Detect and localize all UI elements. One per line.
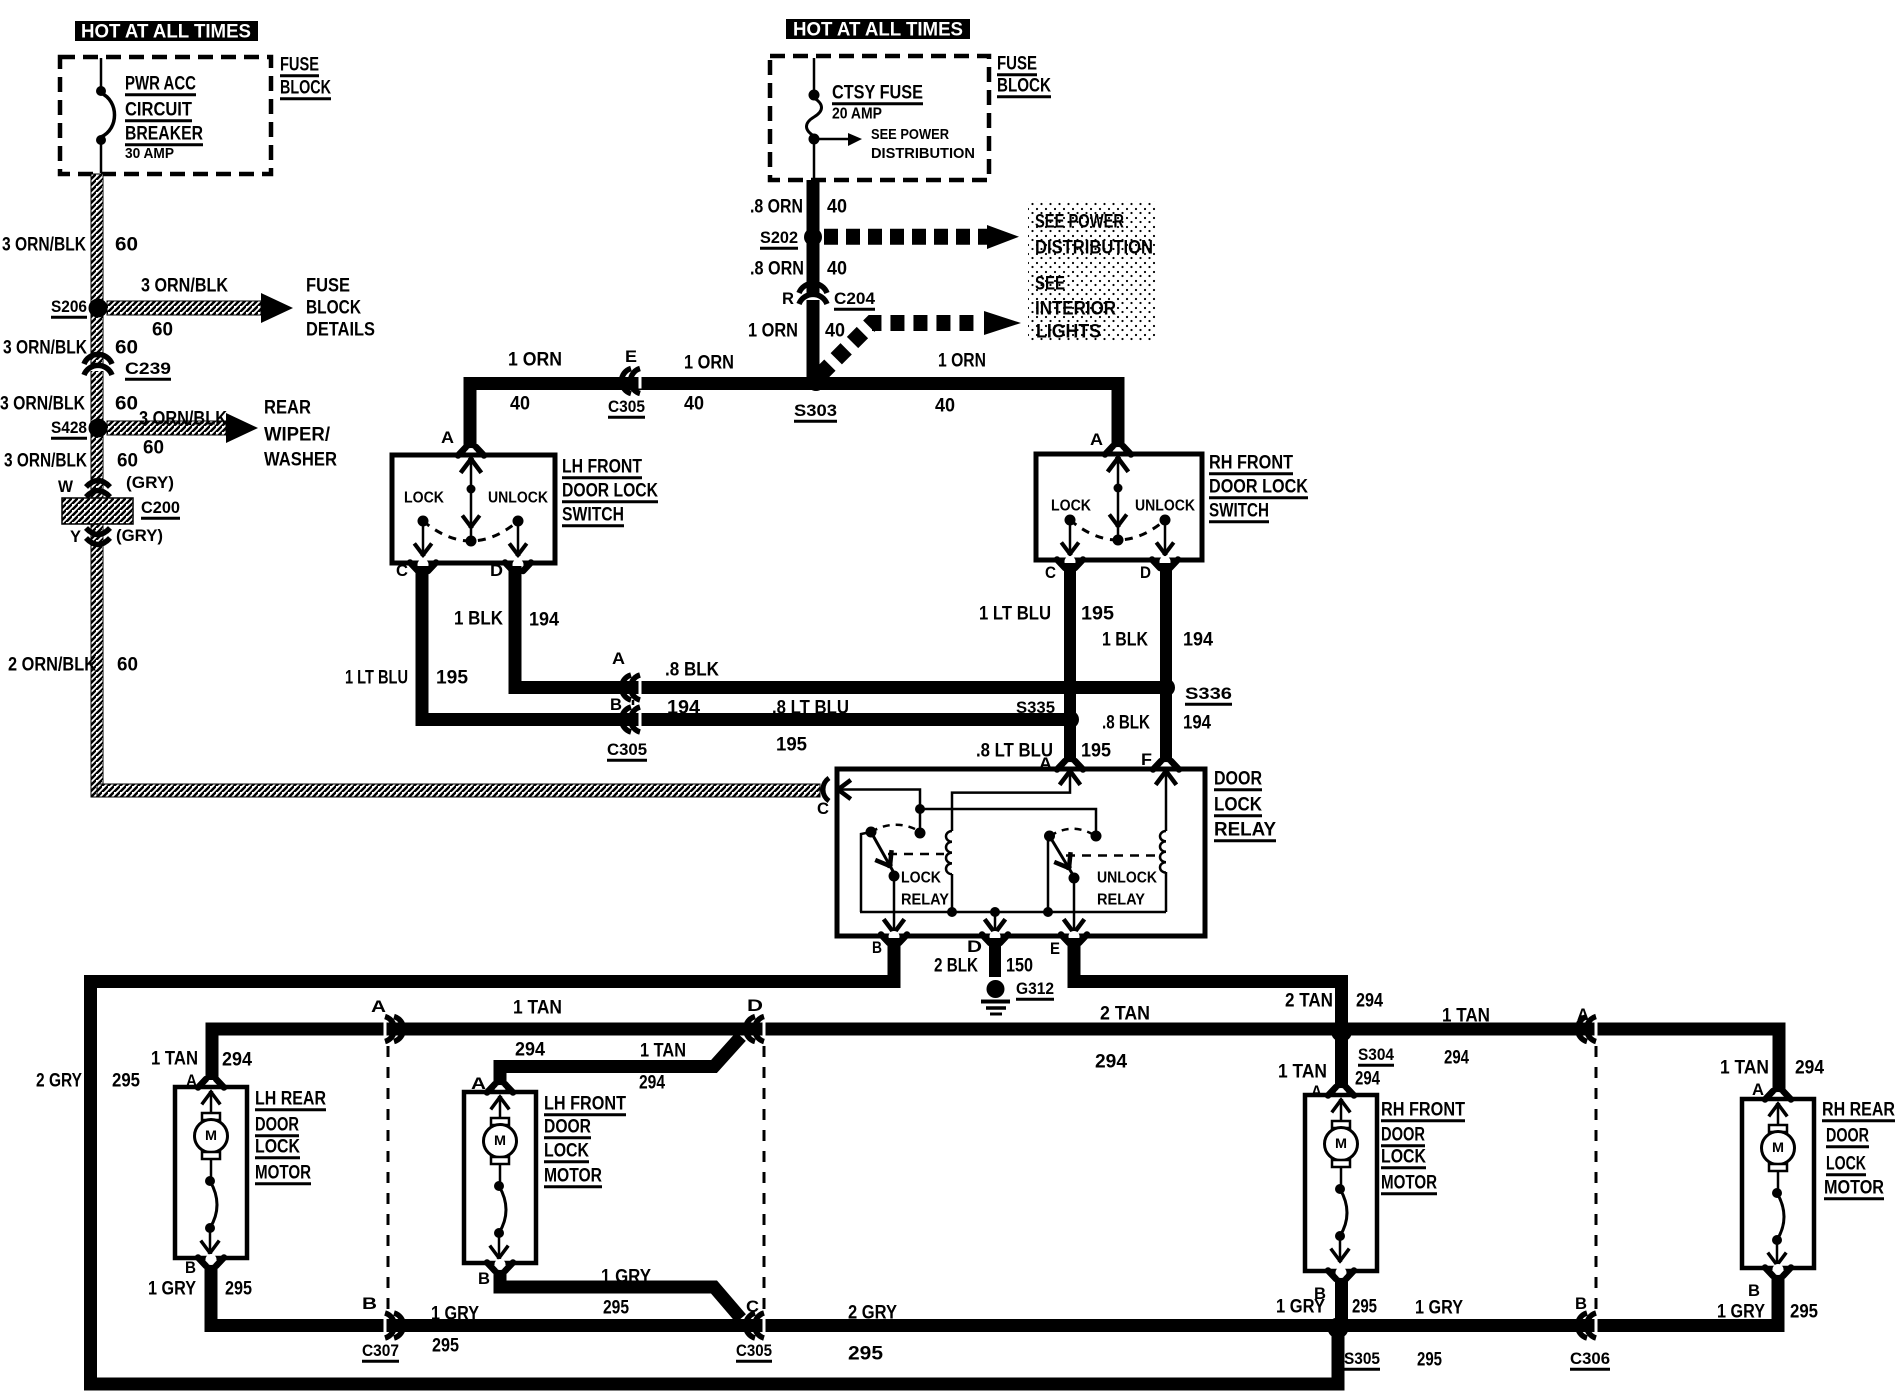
svg-text:M: M <box>494 1132 506 1148</box>
wire RH D to relay F <box>1160 563 1172 764</box>
svg-text:294: 294 <box>639 1073 665 1094</box>
wire RH front motor B down to S305 <box>1335 1271 1348 1326</box>
LH front motor B terminal <box>495 1259 506 1270</box>
svg-text:40: 40 <box>827 259 847 280</box>
RH switch box <box>1036 454 1202 560</box>
svg-text:295: 295 <box>225 1279 252 1300</box>
svg-text:BLOCK: BLOCK <box>280 78 331 99</box>
svg-text:.8 ORN: .8 ORN <box>750 197 803 218</box>
svg-text:(GRY): (GRY) <box>116 526 163 545</box>
svg-text:S202: S202 <box>760 228 798 247</box>
svg-text:E: E <box>1050 939 1060 958</box>
svg-text:Y: Y <box>70 527 82 546</box>
ground G312 <box>987 980 1005 998</box>
svg-text:D: D <box>747 996 763 1015</box>
svg-text:FUSE: FUSE <box>280 55 319 76</box>
svg-text:M: M <box>1335 1135 1347 1151</box>
relay bottom rail <box>860 911 1166 914</box>
svg-text:3 ORN/BLK: 3 ORN/BLK <box>3 338 87 359</box>
svg-text:2 ORN/BLK: 2 ORN/BLK <box>8 655 96 676</box>
CTSY fuse 20 AMP symbol <box>813 58 816 93</box>
svg-text:A: A <box>1311 1082 1322 1101</box>
circuit breaker PWR ACC 30 AMP <box>100 58 103 88</box>
svg-text:DOOR: DOOR <box>1381 1125 1425 1146</box>
svg-text:194: 194 <box>529 610 559 631</box>
svg-text:60: 60 <box>115 338 138 359</box>
svg-text:295: 295 <box>848 1344 883 1365</box>
svg-text:FUSE: FUSE <box>997 54 1037 75</box>
RH front motor A terminal <box>1336 1088 1347 1099</box>
relay D arrow and wire <box>994 912 997 932</box>
RH front motor internals <box>1333 1100 1349 1111</box>
hatched arrow S428 to rear wiper/washer <box>107 421 226 435</box>
svg-text:D: D <box>490 561 503 580</box>
svg-text:295: 295 <box>603 1298 629 1319</box>
svg-text:DOOR: DOOR <box>255 1115 299 1136</box>
RH front motor box <box>1305 1095 1377 1271</box>
LH switch box <box>392 455 555 563</box>
svg-text:S206: S206 <box>51 297 87 316</box>
relay LOCK armature dashed positions <box>871 825 919 832</box>
svg-text:295: 295 <box>1790 1302 1818 1323</box>
svg-text:.8 ORN: .8 ORN <box>750 259 804 280</box>
svg-text:294: 294 <box>515 1040 545 1061</box>
wire 3 ORN/BLK hatched vertical from breaker <box>91 174 103 797</box>
wire LH front motor A branch with diagonal to C305 D <box>500 1037 741 1094</box>
svg-text:1 TAN: 1 TAN <box>151 1049 198 1070</box>
svg-text:A: A <box>186 1071 197 1090</box>
svg-text:DOOR: DOOR <box>1826 1126 1869 1147</box>
fuse block dashed box (middle) <box>770 56 989 180</box>
RH switch A terminal <box>1113 447 1124 458</box>
RH switch LOCK contact <box>1065 515 1076 526</box>
svg-text:60: 60 <box>115 235 138 256</box>
svg-text:DOOR: DOOR <box>544 1117 591 1138</box>
svg-text:SWITCH: SWITCH <box>562 505 624 526</box>
svg-text:1 ORN: 1 ORN <box>684 353 734 374</box>
svg-text:A: A <box>1090 430 1103 449</box>
svg-text:194: 194 <box>667 698 700 719</box>
svg-text:LOCK: LOCK <box>1051 498 1091 515</box>
svg-text:C200: C200 <box>141 498 180 517</box>
RH switch UNLOCK contact <box>1160 515 1171 526</box>
svg-text:295: 295 <box>112 1071 140 1092</box>
svg-text:LOCK: LOCK <box>404 490 444 507</box>
stippled note box SEE POWER DISTRIBUTION / SEE INTERIOR LIGHTS <box>1028 201 1156 341</box>
svg-text:194: 194 <box>1183 630 1213 651</box>
svg-text:40: 40 <box>684 394 704 415</box>
connector C307 terminal A <box>384 1022 387 1037</box>
svg-text:A: A <box>612 649 625 668</box>
svg-text:M: M <box>205 1127 217 1143</box>
svg-text:F: F <box>1141 750 1152 769</box>
svg-text:(GRY): (GRY) <box>126 473 174 492</box>
svg-text:LOCK: LOCK <box>1214 795 1262 816</box>
svg-text:C: C <box>1045 563 1056 582</box>
svg-text:BREAKER: BREAKER <box>125 124 203 145</box>
svg-text:1 TAN: 1 TAN <box>1720 1058 1769 1079</box>
svg-text:WIPER/: WIPER/ <box>264 425 331 446</box>
svg-text:1 GRY: 1 GRY <box>1717 1302 1765 1323</box>
svg-text:1 BLK: 1 BLK <box>454 609 503 630</box>
svg-text:FUSE: FUSE <box>306 276 350 297</box>
relay UNLOCK coil <box>1160 831 1166 873</box>
svg-text:60: 60 <box>117 451 138 472</box>
connector C307 terminal B <box>384 1318 387 1333</box>
relay UNLOCK armature dashed positions <box>1050 829 1094 836</box>
svg-text:294: 294 <box>1795 1058 1824 1079</box>
connector C306 terminal A <box>1595 1022 1598 1037</box>
svg-text:RELAY: RELAY <box>901 892 949 909</box>
svg-text:LOCK: LOCK <box>1381 1147 1426 1168</box>
svg-text:A: A <box>371 997 386 1016</box>
wire motor return chain LH rear B to RH rear B <box>211 1263 1778 1326</box>
svg-text:WASHER: WASHER <box>264 450 337 471</box>
svg-text:LOCK: LOCK <box>544 1141 589 1162</box>
svg-text:1 TAN: 1 TAN <box>640 1041 686 1062</box>
relay UNLOCK NC contact <box>1091 831 1102 842</box>
label HOT AT ALL TIMES (middle) <box>786 19 970 39</box>
LH rear motor A terminal <box>206 1080 217 1091</box>
LH front motor A terminal <box>495 1085 506 1096</box>
RH rear motor B terminal <box>1773 1264 1784 1275</box>
svg-text:B: B <box>185 1258 196 1277</box>
svg-text:295: 295 <box>1352 1297 1377 1318</box>
svg-text:REAR: REAR <box>264 398 311 419</box>
svg-text:1 GRY: 1 GRY <box>1276 1297 1325 1318</box>
svg-text:G312: G312 <box>1016 979 1054 998</box>
LH switch D terminal <box>513 559 524 570</box>
svg-text:60: 60 <box>152 320 173 341</box>
door lock relay box <box>837 769 1205 936</box>
svg-text:30 AMP: 30 AMP <box>125 145 174 162</box>
connector C305 dashed line (bottom) <box>763 1046 766 1312</box>
svg-text:3 ORN/BLK: 3 ORN/BLK <box>2 235 86 256</box>
splice S202 <box>804 228 822 246</box>
svg-text:SEE POWER: SEE POWER <box>871 126 949 143</box>
svg-text:CTSY FUSE: CTSY FUSE <box>832 83 923 104</box>
wire 2 TAN bus: relay E right and down to S304 <box>1074 938 1342 1034</box>
svg-text:194: 194 <box>1183 713 1211 734</box>
svg-text:.8 BLK: .8 BLK <box>1102 713 1150 734</box>
svg-text:1 LT BLU: 1 LT BLU <box>979 604 1051 625</box>
LH switch A terminal <box>466 448 477 459</box>
wire 1 ORN bus S303 to switches <box>470 384 1118 454</box>
svg-text:60: 60 <box>117 655 138 676</box>
svg-text:R: R <box>782 289 794 308</box>
svg-text:1 TAN: 1 TAN <box>1442 1006 1490 1027</box>
LH rear motor box <box>175 1087 247 1258</box>
svg-text:BLOCK: BLOCK <box>997 76 1051 97</box>
svg-text:295: 295 <box>1417 1350 1442 1371</box>
svg-text:D: D <box>1140 563 1151 582</box>
svg-text:LIGHTS: LIGHTS <box>1036 322 1101 343</box>
svg-text:294: 294 <box>1444 1048 1469 1069</box>
svg-text:RELAY: RELAY <box>1214 820 1276 841</box>
relay E arrow <box>1065 921 1083 933</box>
svg-text:C: C <box>396 561 408 580</box>
relay B arrow <box>885 921 903 933</box>
svg-text:294: 294 <box>1356 991 1383 1012</box>
svg-text:20 AMP: 20 AMP <box>832 106 882 123</box>
svg-text:RELAY: RELAY <box>1097 892 1145 909</box>
svg-text:RH FRONT: RH FRONT <box>1381 1100 1465 1121</box>
wire 2 GRY bus: relay B, left side, bottom, up to S305 <box>91 938 1339 1384</box>
svg-text:2 TAN: 2 TAN <box>1285 991 1333 1012</box>
svg-text:195: 195 <box>776 735 807 756</box>
svg-text:C305: C305 <box>736 1341 772 1360</box>
svg-text:E: E <box>625 347 637 366</box>
svg-text:1 ORN: 1 ORN <box>508 350 562 371</box>
relay A arrow and wire to lock coil <box>1061 771 1079 783</box>
label HOT AT ALL TIMES (left) <box>75 21 258 41</box>
wire .8 ORN from fuse to S303 <box>807 180 820 378</box>
relay terminal B <box>889 931 900 942</box>
connector C305 terminal D (bottom) <box>763 1022 766 1037</box>
svg-text:C306: C306 <box>1570 1349 1610 1368</box>
svg-text:B: B <box>1748 1281 1760 1300</box>
wire LH front motor B branch with diagonal to C305 C <box>500 1266 741 1319</box>
LH rear motor B terminal <box>206 1254 217 1265</box>
svg-text:S304: S304 <box>1358 1045 1394 1064</box>
svg-text:S305: S305 <box>1344 1349 1380 1368</box>
relay terminal C (left edge) <box>823 778 829 801</box>
RH rear motor internals <box>1770 1104 1786 1115</box>
svg-text:INTERIOR: INTERIOR <box>1035 299 1116 320</box>
svg-text:B: B <box>362 1294 377 1313</box>
svg-text:195: 195 <box>1081 604 1114 625</box>
svg-text:B: B <box>478 1269 490 1288</box>
svg-text:UNLOCK: UNLOCK <box>1135 498 1195 515</box>
svg-text:MOTOR: MOTOR <box>255 1163 311 1184</box>
svg-text:BLOCK: BLOCK <box>306 298 361 319</box>
svg-text:.8 LT BLU: .8 LT BLU <box>772 698 849 719</box>
splice S206 <box>89 299 108 318</box>
svg-text:195: 195 <box>436 668 468 689</box>
svg-text:40: 40 <box>935 396 955 417</box>
wire 1 LT BLU / .8 LT BLU run LH C to S335 <box>422 566 1064 720</box>
svg-text:M: M <box>1772 1139 1784 1155</box>
svg-text:LOCK: LOCK <box>901 870 941 887</box>
svg-text:LOCK: LOCK <box>255 1137 300 1158</box>
svg-text:C: C <box>746 1297 759 1316</box>
svg-text:3 ORN/BLK: 3 ORN/BLK <box>141 276 228 297</box>
svg-text:SWITCH: SWITCH <box>1209 501 1269 522</box>
RH switch C terminal <box>1065 556 1076 567</box>
svg-text:2 BLK: 2 BLK <box>934 956 978 977</box>
connector C305 terminal C (bottom) <box>763 1318 766 1333</box>
svg-text:1 GRY: 1 GRY <box>601 1267 651 1288</box>
svg-text:PWR ACC: PWR ACC <box>125 74 196 95</box>
svg-text:2 GRY: 2 GRY <box>36 1071 82 1092</box>
svg-text:1 LT BLU: 1 LT BLU <box>345 668 408 689</box>
arrow see power distribution (inside fuse box) <box>818 138 848 141</box>
svg-text:A: A <box>471 1074 486 1093</box>
wire 2 BLK 150 to ground <box>989 938 1001 977</box>
LH switch common arm <box>462 459 480 471</box>
svg-text:LH REAR: LH REAR <box>255 1089 326 1110</box>
svg-text:LH FRONT: LH FRONT <box>544 1094 626 1115</box>
svg-text:DETAILS: DETAILS <box>306 320 375 341</box>
svg-text:294: 294 <box>1095 1052 1127 1073</box>
svg-text:S303: S303 <box>794 401 837 420</box>
svg-text:D: D <box>967 937 982 956</box>
svg-text:LH FRONT: LH FRONT <box>562 457 642 478</box>
relay F arrow and wire to unlock coil <box>1157 771 1175 783</box>
connector C307 dashed line <box>387 1046 390 1312</box>
svg-text:A: A <box>441 428 454 447</box>
svg-text:.8 BLK: .8 BLK <box>665 660 719 681</box>
svg-text:C305: C305 <box>607 740 647 759</box>
svg-text:CIRCUIT: CIRCUIT <box>125 100 192 121</box>
svg-text:C: C <box>817 799 829 818</box>
svg-text:195: 195 <box>1081 741 1111 762</box>
svg-text:3 ORN/BLK: 3 ORN/BLK <box>0 394 85 415</box>
svg-text:3 ORN/BLK: 3 ORN/BLK <box>4 451 87 472</box>
svg-text:2 TAN: 2 TAN <box>1100 1004 1150 1025</box>
LH switch UNLOCK contact <box>513 516 524 527</box>
wire 1 TAN / 2 TAN main motor feed bus <box>212 1029 1779 1094</box>
LH switch dashed travel arc <box>423 521 518 541</box>
RH switch common arm <box>1109 458 1127 470</box>
svg-text:UNLOCK: UNLOCK <box>488 490 548 507</box>
connector C305 terminal B <box>639 712 642 727</box>
svg-text:W: W <box>58 477 74 496</box>
splice S335 <box>1061 711 1079 729</box>
relay UNLOCK armature <box>1047 838 1050 912</box>
svg-text:294: 294 <box>222 1050 252 1071</box>
relay terminal E <box>1069 931 1080 942</box>
relay LOCK NC contact <box>915 828 926 839</box>
svg-text:SEE POWER: SEE POWER <box>1035 212 1124 233</box>
dashed arrow to see interior lights <box>820 323 982 375</box>
splice S428 <box>89 419 108 438</box>
RH switch D terminal <box>1160 556 1171 567</box>
svg-text:1 ORN: 1 ORN <box>938 351 986 372</box>
svg-text:S428: S428 <box>51 418 87 437</box>
splice S305 <box>1328 1318 1349 1339</box>
relay C wiring to contacts <box>840 790 920 807</box>
svg-text:1 ORN: 1 ORN <box>748 321 798 342</box>
svg-text:1 BLK: 1 BLK <box>1102 630 1148 651</box>
wire RH C to relay A <box>1064 563 1076 764</box>
svg-text:DISTRIBUTION: DISTRIBUTION <box>1035 238 1153 259</box>
wire hatched horizontal to door lock relay C <box>97 784 820 797</box>
svg-text:C204: C204 <box>834 289 876 308</box>
wire 1 BLK / .8 BLK run LH D to S336 <box>515 566 1160 688</box>
RH rear motor box <box>1742 1099 1814 1268</box>
svg-text:S336: S336 <box>1185 684 1232 703</box>
svg-text:MOTOR: MOTOR <box>1381 1173 1437 1194</box>
svg-text:UNLOCK: UNLOCK <box>1097 870 1157 887</box>
LH switch LOCK contact <box>418 516 429 527</box>
svg-text:DOOR: DOOR <box>1214 769 1262 790</box>
svg-text:HOT AT ALL TIMES: HOT AT ALL TIMES <box>793 20 963 41</box>
svg-text:SEE: SEE <box>1035 274 1065 295</box>
svg-text:1 GRY: 1 GRY <box>1415 1298 1463 1319</box>
fuse block dashed box (left) <box>60 57 271 174</box>
LH rear motor internals <box>203 1092 219 1103</box>
svg-text:3 ORN/BLK: 3 ORN/BLK <box>139 409 227 430</box>
dashed arrow S202 to see power distribution <box>824 229 987 245</box>
svg-text:40: 40 <box>825 321 845 342</box>
svg-text:DOOR LOCK: DOOR LOCK <box>562 481 658 502</box>
svg-text:295: 295 <box>432 1336 459 1357</box>
connector C306 dashed line <box>1595 1046 1598 1312</box>
relay LOCK coil <box>946 831 952 874</box>
svg-text:RH REAR: RH REAR <box>1822 1100 1895 1121</box>
splice S304 <box>1331 1021 1352 1042</box>
svg-text:1 GRY: 1 GRY <box>431 1304 479 1325</box>
svg-text:40: 40 <box>510 394 530 415</box>
svg-text:1 TAN: 1 TAN <box>513 998 562 1019</box>
svg-text:DISTRIBUTION: DISTRIBUTION <box>871 145 975 162</box>
connector C305 terminal E <box>639 374 642 389</box>
LH switch C terminal <box>418 559 429 570</box>
svg-text:DOOR LOCK: DOOR LOCK <box>1209 477 1308 498</box>
RH front motor B terminal <box>1336 1267 1347 1278</box>
svg-text:B: B <box>610 695 622 714</box>
connector C306 terminal B <box>1595 1318 1598 1333</box>
connector C305 terminal A <box>639 680 642 695</box>
svg-text:60: 60 <box>115 394 138 415</box>
splice S336 <box>1157 679 1175 697</box>
relay terminal D <box>990 931 1001 942</box>
svg-text:HOT AT ALL TIMES: HOT AT ALL TIMES <box>81 22 251 43</box>
hatched arrow S206 to fuse block details <box>107 301 261 315</box>
svg-text:B: B <box>872 938 882 957</box>
LH front motor box <box>464 1092 536 1263</box>
connector C204 terminal R <box>805 297 821 300</box>
connector C239 <box>90 368 106 371</box>
splice S303 <box>807 373 825 391</box>
RH rear motor A terminal <box>1773 1092 1784 1103</box>
svg-text:1 TAN: 1 TAN <box>1278 1062 1327 1083</box>
svg-text:A: A <box>1577 1005 1589 1024</box>
RH switch dashed travel arc <box>1070 520 1165 540</box>
svg-text:MOTOR: MOTOR <box>544 1166 602 1187</box>
svg-text:C239: C239 <box>125 359 171 378</box>
svg-text:A: A <box>1752 1080 1764 1099</box>
relay LOCK armature <box>861 832 871 912</box>
svg-text:RH FRONT: RH FRONT <box>1209 453 1293 474</box>
wire S304 down to RH front motor A <box>1335 1029 1348 1096</box>
svg-text:150: 150 <box>1006 956 1033 977</box>
svg-text:C307: C307 <box>362 1341 399 1360</box>
svg-text:S335: S335 <box>1016 698 1055 717</box>
LH front motor internals <box>492 1097 508 1108</box>
svg-text:B: B <box>1575 1294 1587 1313</box>
svg-text:40: 40 <box>827 197 847 218</box>
svg-text:C305: C305 <box>608 397 645 416</box>
svg-text:LOCK: LOCK <box>1826 1154 1866 1175</box>
svg-text:60: 60 <box>143 438 164 459</box>
svg-text:1 GRY: 1 GRY <box>148 1279 196 1300</box>
svg-text:2 GRY: 2 GRY <box>848 1303 897 1324</box>
svg-text:294: 294 <box>1355 1069 1380 1090</box>
svg-text:MOTOR: MOTOR <box>1824 1178 1884 1199</box>
